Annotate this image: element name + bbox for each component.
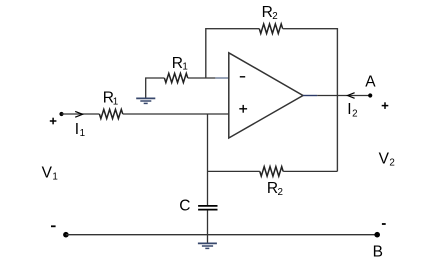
svg-text:R: R — [172, 55, 183, 72]
wire top R2 right lead and right vertical down — [283, 29, 338, 172]
svg-text:A: A — [365, 73, 376, 90]
svg-text:1: 1 — [182, 62, 187, 73]
svg-text:1: 1 — [52, 172, 57, 183]
wire bottom R2 left lead — [208, 170, 260, 172]
label + (V2 plus polarity) — [382, 102, 389, 109]
op-amp U1 — [229, 53, 303, 138]
node B terminal dot — [374, 232, 380, 238]
wire feedback left vertical (top R2 to minus input) — [206, 29, 259, 78]
svg-text:1: 1 — [113, 96, 118, 107]
wire input lead right of R1 to op-amp plus input — [123, 113, 229, 115]
svg-text:2: 2 — [389, 158, 394, 169]
resistor R2 (top feedback) — [259, 4, 282, 33]
label - (V2 minus polarity) — [382, 223, 386, 225]
ground (upper, at R1) — [136, 98, 155, 103]
label - (V1 minus polarity) — [51, 225, 56, 227]
wire (blue segment) into op-amp minus input — [215, 77, 228, 79]
wire minus-input lead from ground corner to R1 upper — [146, 78, 165, 98]
label + (V1 plus polarity) — [50, 118, 57, 125]
resistor R1 (upper, feedback to ground) — [164, 55, 187, 83]
node bottom-left terminal dot — [63, 232, 69, 238]
svg-text:V: V — [42, 165, 53, 182]
label V1 — [42, 165, 58, 183]
arrow I2 current arrow — [347, 93, 357, 120]
svg-text:2: 2 — [352, 108, 357, 119]
wire bottom R2 right lead — [283, 170, 337, 172]
wire R1 upper right lead to op-amp minus input — [188, 77, 216, 79]
wire bottom rail — [66, 234, 377, 236]
wire output (blue segment at op-amp tip) — [303, 95, 317, 97]
svg-text:V: V — [379, 151, 390, 168]
svg-text:2: 2 — [272, 11, 277, 22]
resistor R1 (input, lower) — [99, 90, 122, 119]
svg-text:I: I — [347, 101, 351, 118]
node A terminal dot — [368, 93, 372, 97]
svg-text:2: 2 — [278, 187, 283, 198]
wire input lead left of R1 — [62, 113, 100, 115]
ground (bottom, at capacitor) — [198, 243, 217, 248]
resistor R2 (bottom feedback) — [260, 167, 283, 198]
capacitor C — [179, 197, 217, 214]
svg-text:R: R — [267, 180, 278, 197]
arrow I1 current arrow — [75, 111, 85, 139]
wire output to node A — [317, 95, 370, 97]
svg-text:1: 1 — [80, 128, 85, 139]
svg-text:B: B — [373, 243, 383, 260]
svg-text:I: I — [75, 121, 79, 138]
svg-text:C: C — [179, 197, 190, 214]
node input terminal dot — [59, 112, 63, 116]
wire cap branch vertical (plus input down to capacitor) — [207, 114, 209, 205]
wire capacitor bottom to ground — [207, 210, 209, 242]
svg-text:R: R — [262, 4, 273, 21]
label V2 — [379, 151, 395, 169]
